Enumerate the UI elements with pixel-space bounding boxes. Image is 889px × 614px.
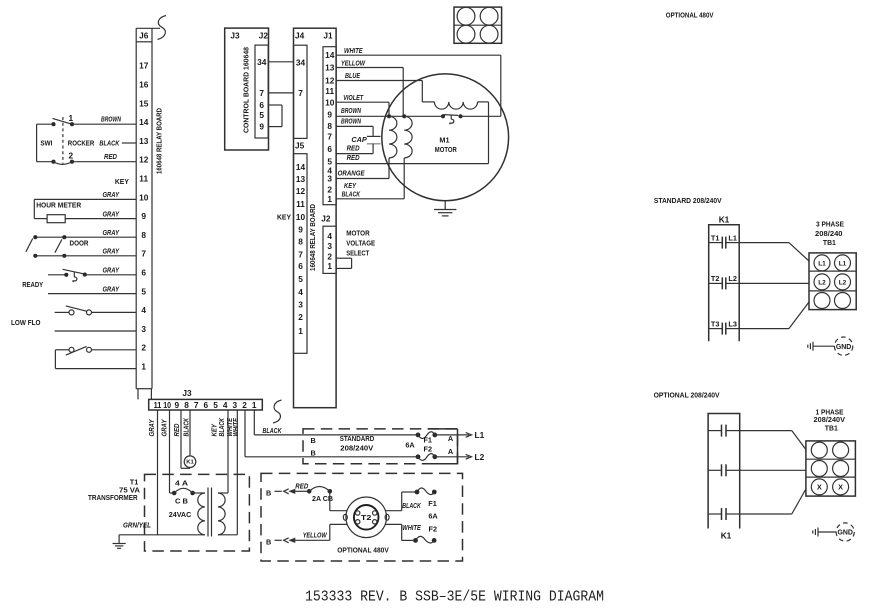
svg-text:F2: F2 bbox=[429, 525, 438, 534]
wire label GRAY J6-7 bbox=[103, 249, 121, 256]
wire L1 to TB1 bbox=[739, 243, 809, 261]
svg-text:8: 8 bbox=[327, 121, 332, 131]
K1 contact T3-L3 bbox=[709, 319, 740, 334]
svg-text:GRAY: GRAY bbox=[103, 268, 121, 275]
svg-text:1: 1 bbox=[327, 194, 332, 204]
wire J3-1 BLACK to standard box bbox=[254, 410, 418, 435]
wire J6-3 bbox=[55, 330, 137, 332]
wire J1-5 RED to aux winding bbox=[336, 102, 488, 164]
transformer enclosure (dashed) bbox=[145, 474, 250, 551]
svg-text:YELLOW: YELLOW bbox=[303, 533, 328, 540]
terminal label B (line 1) bbox=[311, 436, 316, 445]
svg-text:KEY: KEY bbox=[277, 212, 291, 221]
svg-text:B: B bbox=[311, 448, 316, 457]
wire label YELLOW bbox=[303, 533, 328, 540]
wire label RED J6-12 bbox=[104, 154, 117, 161]
contactor K1 label bbox=[719, 214, 730, 224]
svg-text:K1: K1 bbox=[186, 460, 194, 466]
svg-text:OPTIONAL 208/240V: OPTIONAL 208/240V bbox=[654, 391, 720, 400]
terminal label A (line 2) bbox=[448, 447, 454, 456]
svg-text:GRAY: GRAY bbox=[103, 230, 121, 237]
wire label VIOLET J1-10 bbox=[343, 95, 364, 102]
wire to L2 bbox=[435, 454, 472, 459]
svg-text:DOOR: DOOR bbox=[70, 238, 90, 247]
terminal block TB1 heading bbox=[815, 220, 844, 247]
svg-text:L1: L1 bbox=[475, 430, 485, 440]
J6 board neck to J3 bbox=[138, 389, 151, 400]
wire contact3 to TB1 bbox=[740, 489, 806, 514]
connector J5 label bbox=[295, 141, 305, 151]
svg-text:SWI: SWI bbox=[40, 139, 52, 148]
wire label ORANGE J1-3 bbox=[338, 171, 365, 178]
wire J3-2 WHITE to standard box bbox=[245, 410, 418, 457]
door label bbox=[70, 238, 90, 247]
circuit breaker 4A CB bbox=[172, 488, 195, 495]
svg-text:GRAY: GRAY bbox=[162, 418, 169, 436]
ground (motor) bbox=[434, 201, 456, 216]
svg-text:16: 16 bbox=[139, 80, 149, 90]
svg-text:MOTOR: MOTOR bbox=[346, 229, 370, 238]
switch wire J6-2 bbox=[55, 346, 136, 355]
svg-text:11: 11 bbox=[296, 199, 305, 209]
board break squiggle bottom bbox=[273, 400, 282, 423]
svg-text:17: 17 bbox=[139, 61, 149, 71]
svg-text:C B: C B bbox=[175, 496, 188, 505]
svg-text:3: 3 bbox=[327, 241, 332, 251]
wire J1-6 RED bbox=[336, 153, 373, 155]
svg-text:KEY: KEY bbox=[344, 183, 357, 190]
svg-text:8: 8 bbox=[141, 230, 146, 240]
wire T2 to F1 bbox=[385, 492, 417, 511]
optional 480V label (box) bbox=[337, 545, 389, 554]
svg-text:208/240V: 208/240V bbox=[340, 444, 373, 453]
svg-text:3: 3 bbox=[141, 324, 146, 334]
transformer T1 secondary winding bbox=[218, 493, 225, 535]
motor voltage select label bbox=[346, 229, 375, 258]
svg-text:VOLTAGE: VOLTAGE bbox=[346, 239, 375, 248]
key label J6-11 bbox=[115, 177, 129, 186]
wire J3-3 WHITE to secondary bbox=[218, 410, 237, 535]
svg-text:3 PHASE: 3 PHASE bbox=[816, 220, 844, 229]
svg-text:12: 12 bbox=[325, 75, 335, 85]
svg-text:6: 6 bbox=[141, 268, 146, 278]
svg-text:RED: RED bbox=[295, 483, 308, 490]
ground wire GRN/YEL bbox=[119, 534, 205, 536]
motor centrifugal switch bbox=[441, 114, 463, 124]
svg-text:F1: F1 bbox=[428, 499, 437, 508]
wire label GRAY J6-8 bbox=[103, 230, 121, 237]
connector J4 pin strip bbox=[294, 45, 308, 138]
svg-text:14: 14 bbox=[139, 117, 149, 127]
svg-text:11: 11 bbox=[154, 400, 162, 410]
wire label GRAY J6-10 bbox=[103, 192, 121, 199]
svg-text:RED: RED bbox=[347, 145, 360, 152]
svg-text:T1: T1 bbox=[711, 233, 720, 242]
svg-text:RED: RED bbox=[104, 154, 117, 161]
svg-text:5: 5 bbox=[213, 400, 218, 410]
wire CB to primary bbox=[193, 492, 205, 494]
svg-text:1: 1 bbox=[68, 113, 73, 123]
svg-text:2: 2 bbox=[141, 343, 146, 353]
svg-text:KEY: KEY bbox=[212, 423, 219, 437]
svg-text:J2: J2 bbox=[259, 31, 269, 41]
svg-text:READY: READY bbox=[22, 280, 43, 289]
relay board (middle) text bbox=[310, 204, 317, 271]
wire J1-14 WHITE bbox=[336, 55, 501, 116]
svg-text:L2: L2 bbox=[818, 279, 826, 286]
svg-text:BROWN: BROWN bbox=[101, 116, 122, 123]
wire L3 to TB1 bbox=[739, 302, 809, 329]
wire label BLUE J1-12 bbox=[345, 73, 360, 80]
svg-text:4 A: 4 A bbox=[175, 479, 189, 488]
relay board 160648 (middle) outline bbox=[294, 28, 337, 408]
svg-text:RED: RED bbox=[347, 155, 360, 162]
svg-text:BROWN: BROWN bbox=[341, 118, 362, 125]
svg-text:4: 4 bbox=[223, 400, 228, 410]
svg-text:GRAY: GRAY bbox=[149, 418, 156, 436]
ground GND (1 phase) bbox=[813, 523, 855, 541]
svg-text:T2: T2 bbox=[361, 513, 372, 522]
transformer T1 label bbox=[88, 478, 141, 502]
switch return wire J6-1 bbox=[55, 350, 136, 369]
svg-text:LOW FLO: LOW FLO bbox=[11, 318, 41, 327]
wire J1-1 BLACK to start winding bbox=[336, 158, 404, 199]
svg-text:BLACK: BLACK bbox=[342, 192, 361, 199]
wire label GRN/YEL bbox=[123, 522, 151, 529]
svg-text:OPTIONAL 480V: OPTIONAL 480V bbox=[666, 11, 714, 20]
svg-text:K1: K1 bbox=[719, 214, 730, 224]
fuse F1 (standard) bbox=[416, 432, 438, 439]
fuse F2 (480V) bbox=[413, 536, 436, 543]
svg-text:6: 6 bbox=[327, 144, 332, 154]
jumper loop pins 6-9 bbox=[268, 105, 282, 127]
svg-text:CONTROL BOARD 160648: CONTROL BOARD 160648 bbox=[244, 47, 251, 133]
connector J3 (bottom) outline bbox=[149, 399, 263, 410]
svg-text:7: 7 bbox=[298, 250, 303, 260]
svg-text:RED: RED bbox=[174, 424, 181, 437]
svg-text:J4: J4 bbox=[295, 31, 305, 41]
connector J4 pin numbers bbox=[296, 57, 306, 98]
svg-text:208/240: 208/240 bbox=[815, 229, 843, 238]
svg-text:BLACK: BLACK bbox=[219, 417, 226, 436]
motor auxiliary winding bbox=[422, 102, 488, 109]
wire label BLACK (480V) bbox=[402, 503, 421, 510]
svg-text:ORANGE: ORANGE bbox=[338, 171, 365, 178]
svg-text:A: A bbox=[448, 447, 454, 456]
wire J6-5 GRAY bbox=[48, 293, 136, 295]
svg-text:BROWN: BROWN bbox=[341, 108, 362, 115]
capacitor label CAP bbox=[351, 137, 367, 144]
svg-text:M1: M1 bbox=[439, 135, 449, 144]
svg-text:5: 5 bbox=[259, 110, 264, 120]
svg-text:12: 12 bbox=[296, 186, 306, 196]
hour meter label bbox=[36, 201, 82, 210]
wire label BLACK J6-13 bbox=[99, 141, 120, 148]
connector J3 pin numbers 11-1 bbox=[154, 400, 257, 410]
svg-text:BLACK: BLACK bbox=[263, 428, 283, 435]
fuse F1 (480V) bbox=[415, 488, 437, 495]
svg-text:BLACK: BLACK bbox=[402, 503, 421, 510]
circuit breaker 2A CB bbox=[307, 486, 332, 493]
door switch blade 2 bbox=[55, 239, 62, 252]
node L1 bbox=[475, 430, 485, 440]
svg-text:208/240V: 208/240V bbox=[814, 415, 846, 424]
svg-text:A: A bbox=[448, 434, 454, 443]
svg-text:VIOLET: VIOLET bbox=[343, 95, 364, 102]
control board J2 label bbox=[259, 31, 269, 41]
transformer T2 bbox=[343, 497, 389, 538]
svg-text:ROCKER: ROCKER bbox=[68, 139, 95, 148]
board break squiggle top bbox=[158, 16, 167, 40]
SW1 mechanical link dashed bbox=[62, 117, 64, 164]
control board J3 label bbox=[230, 31, 240, 41]
svg-text:8: 8 bbox=[184, 400, 189, 410]
connector J1 pin numbers 14-1 bbox=[325, 50, 335, 204]
SW1 contact 1 label bbox=[68, 113, 73, 123]
wire CB-7 to J4-7 bbox=[268, 92, 293, 94]
svg-text:153333 REV. B SSB–3E/5E WIRING: 153333 REV. B SSB–3E/5E WIRING DIAGRAM bbox=[305, 589, 604, 606]
svg-text:GRAY: GRAY bbox=[103, 192, 121, 199]
24VAC label bbox=[169, 510, 192, 519]
SW1 labels SWI ROCKER bbox=[40, 139, 95, 148]
wire labels below J3 (rotated) bbox=[149, 417, 240, 436]
svg-text:TRANSFORMER: TRANSFORMER bbox=[88, 493, 138, 502]
wire J1-12 BLUE bbox=[336, 81, 422, 102]
wire J6-8 GRAY bbox=[33, 235, 136, 239]
svg-text:B: B bbox=[311, 436, 316, 445]
hour meter branch wire bbox=[34, 199, 47, 218]
terminal block TB1 (3 phase) bbox=[809, 253, 856, 310]
wire contact2 to TB1 bbox=[740, 469, 806, 471]
svg-text:6: 6 bbox=[259, 100, 264, 110]
connector J1 pin strip bbox=[323, 47, 336, 205]
ground (transformer) bbox=[113, 535, 126, 549]
TB1 terminal labels L1 L1 L2 L2 bbox=[818, 260, 846, 286]
svg-text:T2: T2 bbox=[711, 274, 720, 283]
svg-text:34: 34 bbox=[257, 57, 267, 67]
standard 208/240V heading bbox=[654, 196, 722, 205]
svg-text:4: 4 bbox=[298, 287, 303, 297]
wire 2A CB to T2 bbox=[330, 491, 347, 510]
svg-text:1: 1 bbox=[141, 362, 146, 372]
node L2 bbox=[475, 452, 485, 462]
connector J1 label bbox=[323, 31, 333, 41]
K1 contact T2-L2 bbox=[709, 274, 740, 289]
key label J5-10 bbox=[277, 212, 291, 221]
wire label RED J1-6 bbox=[347, 145, 360, 152]
svg-text:GND: GND bbox=[837, 528, 853, 537]
wire J3-4 KEY BLACK to secondary bbox=[218, 410, 228, 493]
contactor K1 outline bbox=[709, 225, 740, 341]
svg-text:L2: L2 bbox=[475, 452, 485, 462]
wire label RED J1-5 bbox=[347, 155, 360, 162]
svg-text:BLACK: BLACK bbox=[99, 141, 120, 148]
svg-text:11: 11 bbox=[139, 174, 148, 184]
terminal label B (line 2) bbox=[311, 448, 316, 457]
svg-text:B: B bbox=[266, 488, 271, 497]
svg-text:BLUE: BLUE bbox=[345, 73, 360, 80]
svg-text:WHITE: WHITE bbox=[344, 48, 363, 55]
optional 208/240V heading bbox=[654, 391, 720, 400]
svg-text:TB1: TB1 bbox=[825, 424, 838, 433]
connector J6 pin numbers 17-1 bbox=[139, 61, 149, 372]
wire label GRAY J6-5 bbox=[103, 286, 121, 293]
svg-text:L1: L1 bbox=[818, 260, 826, 267]
motor M1 circle bbox=[382, 74, 509, 201]
control board 160648 outline bbox=[225, 28, 269, 150]
wire J1-8 BROWN to capacitor bbox=[336, 126, 373, 136]
wire contact1 to TB1 bbox=[740, 431, 806, 450]
wire L2 to TB1 bbox=[739, 282, 809, 284]
svg-text:L2: L2 bbox=[839, 279, 847, 286]
svg-text:6: 6 bbox=[298, 261, 303, 271]
svg-text:K1: K1 bbox=[721, 531, 732, 541]
connector J2 pin numbers 4-1 bbox=[327, 231, 332, 271]
control board J2 pin numbers bbox=[257, 57, 267, 132]
svg-text:STANDARD: STANDARD bbox=[340, 434, 375, 443]
wire to L1 bbox=[435, 433, 472, 438]
svg-text:1: 1 bbox=[327, 261, 332, 271]
connector J6 label bbox=[139, 30, 149, 40]
control board text bbox=[244, 47, 251, 133]
wire J1-13 YELLOW bbox=[336, 68, 403, 117]
svg-text:7: 7 bbox=[141, 249, 146, 259]
svg-text:160648 RELAY BOARD: 160648 RELAY BOARD bbox=[310, 204, 317, 271]
svg-text:GRN/YEL: GRN/YEL bbox=[123, 522, 151, 529]
wire label KEY BLACK J1-1 bbox=[342, 183, 361, 198]
ground GND (3 phase) bbox=[808, 337, 853, 355]
svg-text:J2: J2 bbox=[321, 213, 331, 223]
wire J6-10 GRAY bbox=[34, 198, 136, 200]
wire J3-11 GRAY to ground line bbox=[157, 410, 159, 535]
svg-text:HOUR METER: HOUR METER bbox=[36, 201, 82, 210]
wire J1-9 BROWN / winding junction bbox=[336, 114, 443, 118]
svg-text:GRAY: GRAY bbox=[103, 211, 121, 218]
svg-text:15: 15 bbox=[139, 98, 149, 108]
svg-text:MOTOR: MOTOR bbox=[435, 145, 458, 154]
switch SW1 rocker contact 1 wire to J6-14 bbox=[37, 118, 137, 126]
svg-text:12: 12 bbox=[139, 155, 149, 165]
svg-text:GND: GND bbox=[836, 342, 852, 351]
svg-text:1: 1 bbox=[252, 400, 257, 410]
terminal label A (line 1) bbox=[448, 434, 454, 443]
wire J1-10 VIOLET bbox=[336, 102, 389, 116]
contactor K1 (optional) label bbox=[721, 531, 732, 541]
svg-text:J6: J6 bbox=[139, 30, 149, 40]
wire J3-10 GRAY to CB bbox=[170, 410, 173, 493]
svg-text:CAP: CAP bbox=[351, 137, 367, 144]
terminal block TB1 (1 phase) heading bbox=[814, 407, 846, 432]
jumper tab J2 pins 2-1 bbox=[336, 258, 352, 268]
motor run winding bbox=[389, 116, 397, 158]
optional 480V plug block bbox=[454, 7, 502, 43]
4A CB labels bbox=[175, 479, 189, 506]
SW1 contact 2 label bbox=[68, 151, 73, 161]
wire T2 to yellow bbox=[330, 524, 347, 540]
svg-text:4: 4 bbox=[327, 231, 332, 241]
svg-text:10: 10 bbox=[163, 400, 171, 410]
svg-text:9: 9 bbox=[327, 110, 332, 120]
transformer T1 primary winding bbox=[198, 493, 205, 535]
svg-text:7: 7 bbox=[327, 131, 332, 141]
svg-text:L1: L1 bbox=[839, 260, 847, 267]
svg-text:13: 13 bbox=[139, 136, 149, 146]
svg-text:3: 3 bbox=[327, 174, 332, 184]
svg-text:6: 6 bbox=[204, 400, 209, 410]
fuse labels F1 6A F2 (480V) bbox=[428, 499, 438, 534]
wire label YELLOW J1-13 bbox=[341, 60, 366, 67]
svg-text:X: X bbox=[817, 483, 822, 492]
svg-text:14: 14 bbox=[296, 162, 306, 172]
SW1 left rail wire bbox=[36, 124, 38, 162]
svg-text:WHITE: WHITE bbox=[402, 525, 421, 532]
wire J1-3 ORANGE to run winding bbox=[336, 158, 389, 179]
svg-text:J3: J3 bbox=[182, 388, 192, 398]
wire J3-9 RED to relay K1 coil bbox=[181, 410, 190, 468]
svg-text:7: 7 bbox=[259, 88, 264, 98]
connector J4 label bbox=[295, 31, 305, 41]
capacitor CAP bbox=[367, 136, 381, 153]
svg-text:GRAY: GRAY bbox=[103, 286, 121, 293]
terminal label B (480V yellow) bbox=[266, 537, 271, 546]
wire J6-13 BLACK from SW1 bbox=[122, 142, 136, 144]
svg-text:F2: F2 bbox=[424, 445, 433, 454]
optional 480V label (top right) bbox=[666, 11, 714, 20]
svg-text:T3: T3 bbox=[711, 319, 720, 328]
svg-text:24VAC: 24VAC bbox=[169, 510, 192, 519]
wire label BROWN J6-14 bbox=[101, 116, 122, 123]
arrow to B (red) bbox=[275, 489, 310, 494]
svg-text:5: 5 bbox=[141, 286, 146, 296]
svg-text:J1: J1 bbox=[323, 31, 333, 41]
wire label BROWN J1-8 bbox=[341, 118, 362, 125]
connector J5 pin numbers 14-1 bbox=[296, 162, 306, 336]
K1 optional contact 3 bbox=[708, 508, 740, 520]
svg-text:L2: L2 bbox=[728, 274, 737, 283]
svg-text:STANDARD 208/240V: STANDARD 208/240V bbox=[654, 196, 722, 205]
ready switch wire J6-6 bbox=[48, 269, 136, 282]
transformer T1 core bbox=[208, 488, 212, 537]
svg-text:X: X bbox=[838, 483, 843, 492]
wire T2 to F2 bbox=[385, 524, 415, 540]
standard box label bbox=[340, 434, 375, 453]
motor M1 label bbox=[435, 135, 458, 154]
svg-text:10: 10 bbox=[325, 98, 335, 108]
svg-text:GRAY: GRAY bbox=[103, 249, 121, 256]
K1 optional contact 2 bbox=[708, 464, 740, 476]
connector J2 pin strip bbox=[323, 226, 336, 273]
contactor K1 (optional) outline bbox=[708, 414, 740, 529]
svg-text:OPTIONAL 480V: OPTIONAL 480V bbox=[337, 545, 389, 554]
ready label bbox=[22, 280, 43, 289]
svg-text:2: 2 bbox=[327, 252, 332, 262]
K1 contact T1-L1 bbox=[709, 233, 740, 248]
svg-text:11: 11 bbox=[325, 86, 334, 96]
terminal block TB1 (1 phase) bbox=[806, 441, 856, 496]
svg-text:3: 3 bbox=[298, 300, 303, 310]
svg-text:14: 14 bbox=[325, 50, 335, 60]
wire label RED bbox=[295, 483, 308, 490]
SW1 rocker contact 2 wire to J6-12 bbox=[37, 160, 137, 165]
fuse F2 (standard) bbox=[416, 454, 438, 461]
optional 480V enclosure (dashed) bbox=[261, 473, 463, 561]
svg-text:9: 9 bbox=[141, 211, 146, 221]
K1 optional contact 1 bbox=[708, 425, 740, 437]
svg-text:KEY: KEY bbox=[115, 177, 129, 186]
svg-text:7: 7 bbox=[298, 88, 303, 98]
svg-text:9: 9 bbox=[259, 122, 264, 132]
svg-text:L1: L1 bbox=[728, 233, 737, 242]
